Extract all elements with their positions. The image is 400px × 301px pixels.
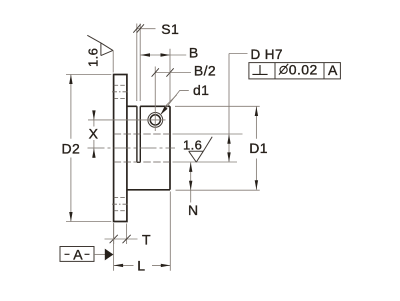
tapped hole d1 core circle (150, 115, 160, 125)
surface finish symbol bore (1.6) (189, 137, 213, 162)
dimension T extension lines (114, 224, 127, 245)
svg-text:d1: d1 (193, 82, 209, 98)
dimension B line (141, 54, 187, 56)
datum A dashes (65, 253, 90, 255)
dimension D1 line (255, 107, 257, 190)
hub top extension line right (175, 105, 260, 107)
svg-text:0.02: 0.02 (289, 61, 318, 77)
bore bottom extension line right (173, 161, 238, 163)
leader d1 arrow (161, 106, 168, 114)
svg-text:D2: D2 (62, 141, 81, 157)
dimension X line (93, 111, 95, 158)
dimension T line (105, 238, 138, 240)
bore top extension line right (173, 133, 243, 135)
d1 hole axis horizontal (88, 119, 166, 121)
dimension B arrows (141, 53, 171, 56)
flange outline (114, 75, 127, 222)
surface finish symbol left (rotated) extension line (112, 50, 114, 72)
dimension D2 arrows (69, 75, 72, 222)
svg-text:B/2: B/2 (194, 62, 216, 78)
svg-text:B: B (189, 45, 199, 61)
bore hidden lines (114, 134, 170, 162)
dimension S1 ticks (133, 24, 144, 32)
dimension S1 line (137, 28, 156, 30)
dimension S1 extension lines (137, 24, 140, 102)
dimension D2 extension lines (66, 75, 111, 222)
dimension N arrows (189, 162, 192, 190)
leader d1 (161, 90, 189, 114)
svg-text:N: N (188, 202, 199, 218)
surface finish symbol left (rotated) (87, 35, 113, 55)
leader D H7 (229, 54, 248, 135)
svg-text:T: T (142, 231, 151, 247)
clamping slit (137, 106, 140, 162)
dimension L line (114, 264, 171, 266)
tapped hole d1 thread circle (148, 113, 163, 128)
hub bottom extension line right (176, 189, 260, 191)
datum A box (60, 247, 94, 262)
dimension D bore line (228, 134, 230, 162)
svg-text:X: X (89, 125, 99, 141)
svg-text:L: L (137, 257, 145, 273)
datum triangle (105, 249, 114, 261)
flange hole axis bottom (112, 203, 129, 205)
svg-text:1.6: 1.6 (86, 48, 101, 67)
flange hole hidden lines top (114, 85, 127, 98)
svg-text:S1: S1 (161, 21, 179, 37)
dimension L arrows (114, 264, 171, 267)
svg-text:A: A (328, 62, 338, 78)
feature control frame (249, 63, 341, 79)
dimension D2 line (70, 75, 72, 222)
svg-text:1.6: 1.6 (183, 138, 202, 153)
dimension D1 arrows (255, 107, 258, 190)
dimension B/2 line (155, 72, 191, 74)
d1 hole axis vertical (154, 67, 156, 132)
main centerline (88, 147, 176, 149)
svg-text:D1: D1 (249, 140, 268, 156)
flange hole hidden lines bottom (114, 198, 127, 211)
perpendicularity symbol (252, 65, 267, 74)
dimension B/2 ticks (152, 68, 174, 76)
hub face extension line (right of B) (169, 49, 171, 102)
svg-text:D H7: D H7 (251, 47, 283, 62)
dimension X arrows (92, 110, 95, 157)
hub outline (127, 106, 170, 190)
corner tick hub top right (165, 95, 177, 107)
svg-text:A: A (73, 246, 83, 262)
dimension L extension lines (114, 192, 171, 271)
dimension T ticks (110, 235, 131, 243)
datum leader (94, 253, 105, 255)
dimension D bore arrows (227, 134, 230, 162)
diameter symbol (279, 64, 288, 75)
dimension N line (190, 162, 192, 202)
flange hole axis top (112, 91, 129, 93)
